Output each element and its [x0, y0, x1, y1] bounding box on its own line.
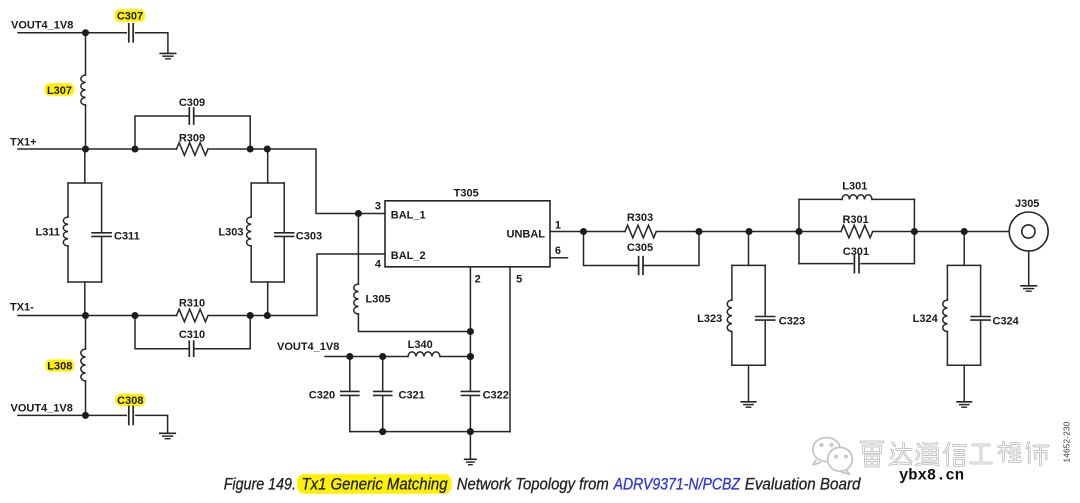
svg-text:R310: R310 [179, 297, 205, 309]
svg-text:C311: C311 [114, 230, 140, 242]
svg-text:Figure 149.: Figure 149. [224, 474, 296, 493]
svg-text:3: 3 [375, 201, 381, 213]
svg-text:UNBAL: UNBAL [507, 228, 546, 240]
svg-text:L340: L340 [408, 339, 433, 351]
svg-text:R309: R309 [179, 132, 205, 144]
svg-text:1: 1 [555, 219, 561, 231]
svg-text:C305: C305 [627, 242, 653, 254]
svg-text:BAL_2: BAL_2 [391, 250, 426, 262]
svg-text:C308: C308 [117, 395, 143, 407]
svg-text:14652-230: 14652-230 [1062, 421, 1071, 462]
svg-text:L308: L308 [47, 361, 72, 373]
svg-text:C322: C322 [483, 389, 509, 401]
svg-text:R303: R303 [627, 212, 653, 224]
svg-text:L307: L307 [47, 85, 72, 97]
svg-text:C323: C323 [779, 315, 805, 327]
svg-text:TX1-: TX1- [10, 301, 34, 313]
svg-text:L303: L303 [218, 227, 243, 239]
svg-text:L324: L324 [913, 313, 939, 325]
svg-text:4: 4 [375, 258, 382, 270]
svg-text:BAL_1: BAL_1 [391, 209, 426, 221]
svg-text:C320: C320 [309, 389, 335, 401]
svg-text:C321: C321 [399, 389, 425, 401]
svg-text:C303: C303 [296, 230, 322, 242]
svg-text:C307: C307 [117, 11, 143, 23]
svg-text:TX1+: TX1+ [10, 136, 37, 148]
svg-text:T305: T305 [454, 187, 479, 199]
svg-text:2: 2 [475, 274, 481, 286]
svg-text:L323: L323 [697, 313, 722, 325]
svg-text:C310: C310 [179, 329, 205, 341]
svg-text:5: 5 [516, 274, 522, 286]
svg-text:L301: L301 [842, 181, 867, 193]
svg-text:ADRV9371-N/PCBZ: ADRV9371-N/PCBZ [613, 474, 741, 493]
svg-text:Network Topology from: Network Topology from [457, 474, 609, 493]
svg-text:VOUT4_1V8: VOUT4_1V8 [11, 19, 73, 31]
svg-text:J305: J305 [1015, 198, 1039, 210]
svg-text:6: 6 [555, 245, 561, 257]
svg-text:C309: C309 [179, 97, 205, 109]
svg-text:L311: L311 [36, 227, 60, 239]
svg-text:Tx1 Generic Matching: Tx1 Generic Matching [302, 474, 449, 493]
svg-text:L305: L305 [366, 294, 391, 306]
svg-text:ybx8.cn: ybx8.cn [899, 466, 964, 484]
svg-text:VOUT4_1V8: VOUT4_1V8 [277, 341, 339, 353]
svg-text:C301: C301 [843, 246, 869, 258]
svg-text:C324: C324 [993, 315, 1020, 327]
svg-text:R301: R301 [842, 214, 868, 226]
svg-text:VOUT4_1V8: VOUT4_1V8 [11, 403, 73, 415]
svg-text:Evaluation Board: Evaluation Board [745, 474, 861, 493]
